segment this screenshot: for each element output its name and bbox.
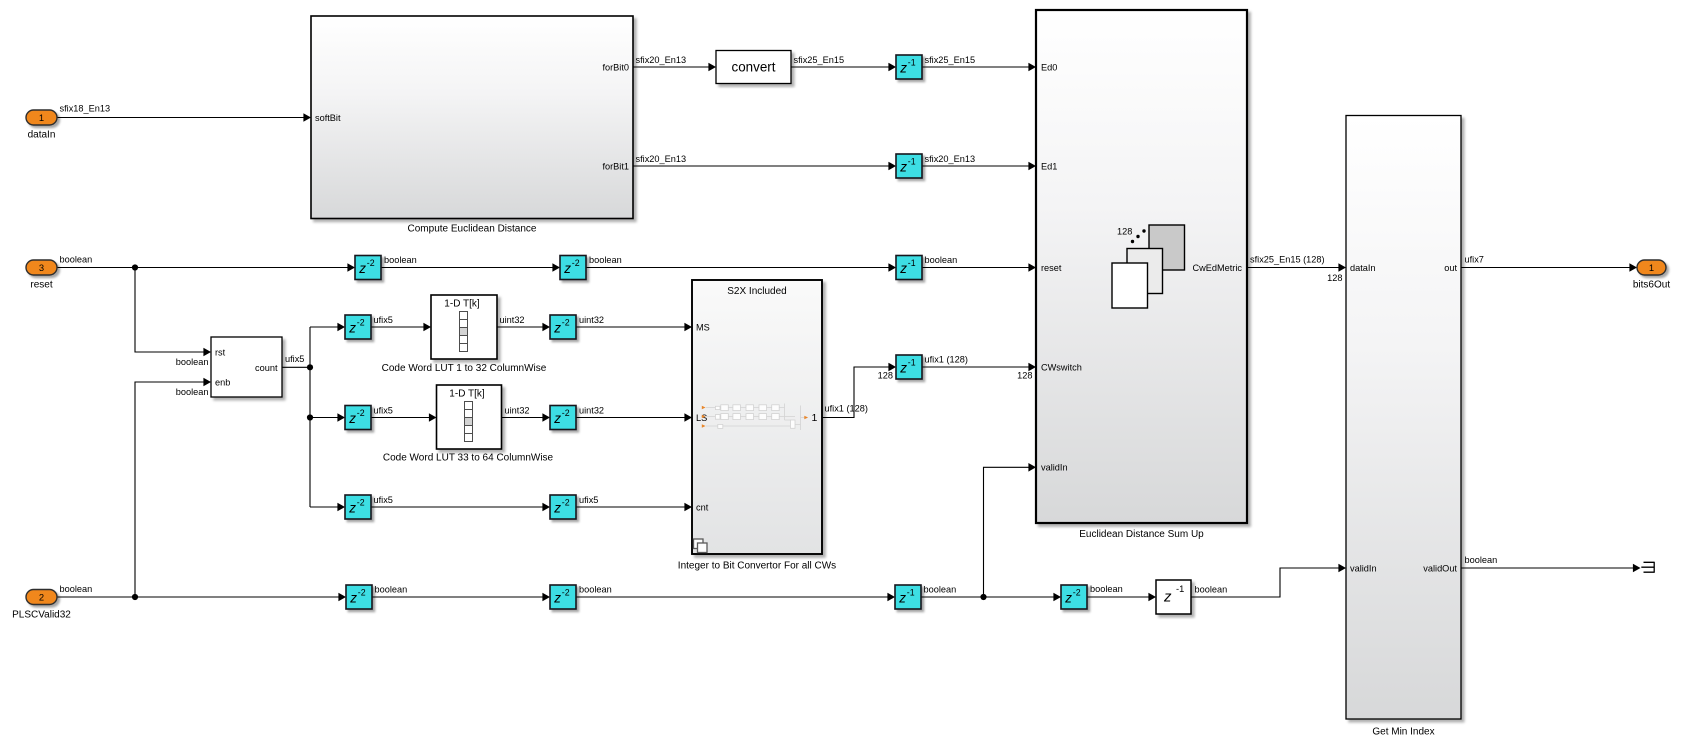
svg-text:Code Word LUT 33 to 64 ColumnW: Code Word LUT 33 to 64 ColumnWise	[383, 453, 554, 464]
svg-text:128: 128	[1117, 227, 1132, 237]
svg-text:validOut: validOut	[1423, 563, 1457, 573]
svg-text:Ed0: Ed0	[1041, 62, 1057, 72]
svg-text:uint32: uint32	[579, 406, 604, 416]
svg-text:sfix18_En13: sfix18_En13	[60, 104, 111, 114]
svg-text:-2: -2	[562, 318, 570, 328]
wire PLSCValid32 segment 5	[1087, 596, 1150, 598]
svg-text:-2: -2	[562, 408, 570, 418]
svg-text:ufix5: ufix5	[579, 495, 598, 505]
svg-text:Code Word LUT 1 to 32 ColumnWi: Code Word LUT 1 to 32 ColumnWise	[382, 363, 547, 374]
svg-text:3: 3	[39, 262, 44, 273]
svg-text:1: 1	[1649, 262, 1654, 273]
svg-text:sfix25_En15: sfix25_En15	[925, 55, 976, 65]
svg-text:PLSCValid32: PLSCValid32	[12, 610, 71, 621]
svg-text:boolean: boolean	[924, 585, 957, 595]
delay Z-2 PLSCValid32 first	[346, 585, 372, 609]
preview schematic inside S2X block	[706, 404, 805, 431]
svg-text:dataIn: dataIn	[28, 130, 56, 141]
subsystem Integer to Bit Convertor (S2X Included)	[678, 280, 836, 572]
delay Z-1 PLSCValid32 third	[895, 585, 921, 609]
svg-text:z: z	[553, 411, 561, 426]
wire row MS: LUT1 to delay	[497, 326, 544, 328]
wire row LS: delay to LS port	[576, 417, 686, 419]
svg-text:rst: rst	[215, 347, 226, 357]
svg-text:boolean: boolean	[384, 255, 417, 265]
svg-text:sfix20_En13: sfix20_En13	[925, 154, 976, 164]
inport 2 PLSCValid32	[26, 590, 57, 605]
wire reset segment 3	[586, 267, 890, 269]
svg-text:-2: -2	[357, 498, 365, 508]
wire dataIn to softBit	[57, 117, 305, 119]
svg-text:-2: -2	[1073, 588, 1081, 598]
svg-text:S2X Included: S2X Included	[727, 286, 787, 297]
delay Z-2 cnt second	[550, 495, 576, 519]
wire PLSCValid32 segment 2	[372, 596, 544, 598]
wire validOut to terminator	[1461, 567, 1634, 569]
svg-text:128: 128	[878, 370, 893, 380]
svg-text:z: z	[1064, 590, 1072, 605]
svg-text:enb: enb	[215, 377, 230, 387]
svg-text:z: z	[899, 159, 907, 174]
wire delay to CWswitch	[921, 366, 1030, 368]
svg-text:boolean: boolean	[375, 585, 408, 595]
wire row cnt: delay to cnt port	[576, 506, 686, 508]
svg-text:z: z	[899, 360, 907, 375]
wire reset branch to rst	[135, 268, 205, 353]
svg-text:dataIn: dataIn	[1350, 263, 1376, 273]
svg-text:-2: -2	[562, 498, 570, 508]
inport 1 dataIn	[26, 110, 57, 125]
svg-text:uint32: uint32	[505, 406, 530, 416]
svg-text:-1: -1	[908, 58, 916, 68]
wire PLSCValid32 segment 3	[576, 596, 889, 598]
svg-text:uint32: uint32	[500, 315, 525, 325]
subsystem Get Min Index	[1346, 116, 1461, 738]
svg-text:reset: reset	[30, 280, 52, 291]
svg-text:CwEdMetric: CwEdMetric	[1192, 263, 1242, 273]
svg-text:forBit1: forBit1	[602, 161, 629, 171]
svg-text:LS: LS	[696, 413, 707, 423]
svg-text:Ed1: Ed1	[1041, 161, 1057, 171]
wire forBit1 to delay Z-1 forBit1	[633, 165, 890, 167]
svg-text:CWswitch: CWswitch	[1041, 362, 1082, 372]
wire PLSCValid32 segment 4	[921, 596, 1055, 598]
delay Z-2 before white delay	[1061, 585, 1087, 609]
svg-text:1: 1	[39, 112, 44, 123]
wire forBit0 to convert	[633, 66, 710, 68]
svg-text:boolean: boolean	[1195, 585, 1228, 595]
delay Z-2 after LUT1	[550, 315, 576, 339]
svg-text:ufix5: ufix5	[374, 315, 393, 325]
svg-text:z: z	[349, 590, 357, 605]
inport 3 reset	[26, 260, 57, 275]
subsystem Compute Euclidean Distance	[311, 16, 633, 234]
svg-text:ufix1 (128): ufix1 (128)	[825, 404, 868, 414]
delay Z-2 cnt first	[345, 495, 371, 519]
svg-text:convert: convert	[732, 60, 776, 75]
svg-text:boolean: boolean	[579, 585, 612, 595]
svg-text:sfix20_En13: sfix20_En13	[636, 154, 687, 164]
subsystem Euclidean Distance Sum Up	[1036, 10, 1247, 540]
wire S2X output to delay	[822, 367, 890, 418]
wire row MS: delay to LUT1	[371, 326, 425, 328]
svg-text:z: z	[553, 500, 561, 515]
block LUT Code Word 33 to 64	[437, 385, 502, 449]
wire PLSCValid32 segment 1	[57, 596, 340, 598]
svg-text:z: z	[899, 60, 907, 75]
svg-text:z: z	[348, 500, 356, 515]
svg-text:z: z	[358, 261, 366, 276]
wire reset segment 1	[57, 267, 349, 269]
delay Z-1 after convert (forBit0)	[896, 55, 922, 79]
wire delay to Ed0	[922, 66, 1030, 68]
svg-text:128: 128	[1327, 273, 1342, 283]
svg-text:1: 1	[812, 412, 818, 424]
wire out to outport	[1461, 267, 1631, 269]
svg-text:sfix25_En15: sfix25_En15	[794, 55, 845, 65]
svg-text:boolean: boolean	[176, 357, 209, 367]
svg-text:ufix1 (128): ufix1 (128)	[925, 355, 968, 365]
svg-text:ufix5: ufix5	[374, 406, 393, 416]
wire row LS: delay to LUT2	[371, 417, 430, 419]
wire reset segment 2	[381, 267, 554, 269]
svg-text:-1: -1	[908, 258, 916, 268]
delay Z-1 forBit1	[896, 154, 922, 178]
svg-text:Compute Euclidean Distance: Compute Euclidean Distance	[408, 223, 537, 234]
svg-text:1-D T[k]: 1-D T[k]	[444, 298, 480, 309]
svg-text:sfix20_En13: sfix20_En13	[636, 55, 687, 65]
svg-text:z: z	[899, 261, 907, 276]
svg-text:z: z	[563, 261, 571, 276]
svg-text:-2: -2	[367, 258, 375, 268]
svg-text:z: z	[898, 590, 906, 605]
svg-text:boolean: boolean	[176, 387, 209, 397]
svg-text:-2: -2	[358, 588, 366, 598]
svg-text:boolean: boolean	[925, 255, 958, 265]
svg-text:z: z	[553, 590, 561, 605]
block LUT Code Word 1 to 32	[431, 295, 497, 359]
wire row MS: delay to MS port	[576, 326, 686, 328]
svg-text:Integer to Bit Convertor For a: Integer to Bit Convertor For all CWs	[678, 561, 836, 572]
wire row LS: LUT2 to delay	[502, 417, 545, 419]
svg-text:1-D T[k]: 1-D T[k]	[449, 388, 485, 399]
svg-text:-2: -2	[357, 408, 365, 418]
icon library badge (two squares) on S2X block	[694, 539, 708, 553]
svg-text:z: z	[348, 320, 356, 335]
wire branch up to validIn of sum-up	[984, 467, 1031, 597]
svg-text:Euclidean Distance Sum Up: Euclidean Distance Sum Up	[1079, 529, 1204, 540]
svg-text:-1: -1	[907, 588, 915, 598]
svg-text:cnt: cnt	[696, 502, 709, 512]
block HDL counter	[211, 337, 282, 397]
delay Z-1 reset third	[896, 256, 922, 280]
svg-text:-2: -2	[357, 318, 365, 328]
svg-text:validIn: validIn	[1350, 563, 1377, 573]
terminator for validOut	[1641, 562, 1654, 573]
svg-text:ufix5: ufix5	[285, 354, 304, 364]
svg-text:ufix7: ufix7	[1465, 254, 1484, 264]
block convert (data type conversion)	[716, 51, 791, 84]
svg-text:MS: MS	[696, 322, 710, 332]
svg-text:boolean: boolean	[1465, 555, 1498, 565]
outport 1 bits6Out	[1637, 260, 1666, 275]
svg-text:z: z	[1163, 589, 1172, 606]
delay Z-2 reset first	[355, 256, 381, 280]
svg-text:boolean: boolean	[1090, 584, 1123, 594]
svg-text:ufix5: ufix5	[374, 495, 393, 505]
svg-text:uint32: uint32	[579, 315, 604, 325]
wire PLSCValid32 branch to enb	[135, 382, 205, 597]
svg-text:out: out	[1444, 263, 1457, 273]
svg-text:Get Min Index: Get Min Index	[1372, 727, 1434, 738]
delay Z-2 reset second	[560, 256, 586, 280]
delay Z-1 CWswitch	[896, 355, 922, 379]
wire reset segment 4 to reset port	[922, 267, 1030, 269]
block white delay Z-1	[1156, 580, 1191, 614]
svg-text:sfix25_En15 (128): sfix25_En15 (128)	[1250, 254, 1325, 264]
svg-text:boolean: boolean	[60, 255, 93, 265]
wire row cnt: delay to delay	[371, 506, 544, 508]
wire convert to delay Z-1 forBit0	[791, 66, 890, 68]
svg-text:softBit: softBit	[315, 113, 341, 123]
delay Z-2 before LUT1	[345, 315, 371, 339]
svg-text:reset: reset	[1041, 263, 1062, 273]
svg-text:-1: -1	[908, 157, 916, 167]
wire count output with branches	[282, 327, 339, 507]
svg-text:-2: -2	[562, 588, 570, 598]
wire to validIn of Get Min Index	[1191, 568, 1340, 597]
svg-text:2: 2	[39, 592, 44, 603]
svg-text:boolean: boolean	[589, 255, 622, 265]
svg-text:-1: -1	[908, 358, 916, 368]
svg-text:boolean: boolean	[60, 584, 93, 594]
delay Z-2 PLSCValid32 second	[550, 585, 576, 609]
svg-text:bits6Out: bits6Out	[1633, 280, 1670, 291]
svg-text:validIn: validIn	[1041, 463, 1068, 473]
svg-text:-2: -2	[572, 258, 580, 268]
svg-text:z: z	[553, 320, 561, 335]
svg-text:128: 128	[1017, 370, 1032, 380]
delay Z-2 after LUT2	[550, 406, 576, 430]
svg-text:z: z	[348, 411, 356, 426]
svg-text:-1: -1	[1176, 584, 1184, 594]
svg-text:count: count	[255, 363, 278, 373]
wire delay to Ed1	[922, 165, 1030, 167]
delay Z-2 before LUT2	[345, 406, 371, 430]
icon stacked pages inside sum-up block	[1112, 225, 1185, 308]
wire CwEdMetric to dataIn	[1247, 267, 1340, 269]
svg-text:forBit0: forBit0	[602, 62, 629, 72]
